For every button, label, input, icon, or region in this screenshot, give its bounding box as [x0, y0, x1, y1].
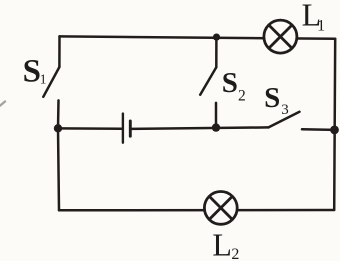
- junction dot top (S2 / top wire): [213, 34, 220, 41]
- switch S3 blade: [269, 112, 300, 128]
- switch S2 top stub: [215, 37, 218, 67]
- svg-text:2: 2: [238, 88, 246, 105]
- wire left rail lower (junction to bottom corner): [58, 128, 59, 210]
- junction dot middle (S2 / middle wire): [212, 123, 220, 131]
- wire middle right (battery to S3): [132, 127, 269, 128]
- svg-text:L: L: [212, 226, 232, 261]
- switch S1 lower contact: [57, 100, 60, 128]
- svg-text:3: 3: [281, 102, 289, 118]
- svg-text:S: S: [222, 67, 238, 99]
- switch S2 lower contact: [215, 103, 218, 128]
- switch S2 blade: [200, 67, 216, 95]
- switch S1 blade: [43, 67, 59, 97]
- wire right rail: [334, 39, 335, 210]
- lamp L2: [204, 192, 237, 225]
- wire bottom (passes under L2): [59, 209, 334, 212]
- battery long plate: [122, 114, 124, 143]
- switch S3 right contact: [302, 128, 335, 131]
- switch S1 top stub: [58, 36, 61, 67]
- junction dot left (S1 / middle wire): [54, 124, 62, 132]
- wire middle left (junction to battery): [58, 127, 122, 130]
- svg-text:1: 1: [317, 18, 325, 35]
- svg-text:S: S: [264, 82, 280, 114]
- scan artifact left edge: [0, 102, 5, 107]
- svg-text:2: 2: [231, 246, 239, 261]
- lamp L1: [264, 20, 297, 53]
- wire top (left corner to right corner, passes under L1): [60, 36, 336, 38]
- svg-text:1: 1: [40, 72, 47, 87]
- svg-text:S: S: [23, 53, 41, 89]
- battery short plate: [129, 121, 132, 136]
- junction dot right (S3 / right rail): [330, 125, 339, 134]
